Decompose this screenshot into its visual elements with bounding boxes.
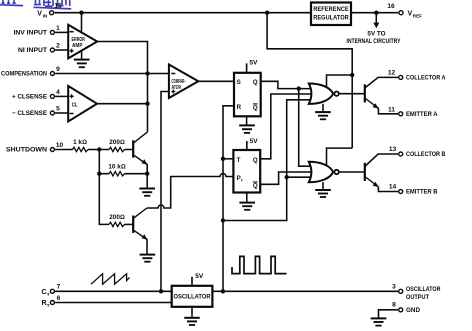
ground below flip-flop	[239, 193, 255, 210]
node FF T tap	[221, 157, 225, 161]
wire reference regulator output to VREF	[351, 12, 398, 14]
wire Q1 emitter to 10k node	[146, 164, 148, 174]
svg-text:1 kΩ: 1 kΩ	[73, 139, 87, 146]
CL amp minus	[70, 113, 74, 115]
wire INV input	[55, 31, 69, 33]
pin 3 oscillator output terminal	[399, 289, 403, 293]
svg-text:13: 13	[389, 146, 397, 153]
ground below NOR A	[315, 104, 331, 120]
watermark blue fragments	[2, 0, 70, 6]
ground below latch	[239, 116, 255, 133]
svg-text:2: 2	[56, 43, 60, 50]
pin 7 CT terminal	[50, 289, 54, 293]
node CT ramp tap	[159, 289, 163, 293]
wire Q2 collector to FF preset with hop	[147, 174, 234, 209]
svg-text:OSCILLATOR: OSCILLATOR	[174, 294, 211, 301]
wire FF T input	[223, 158, 234, 160]
pin 8 GND terminal	[399, 308, 403, 312]
svg-text:R: R	[237, 104, 242, 111]
resistor 1 kOhm	[73, 147, 89, 151]
svg-text:COMPENSATION: COMPENSATION	[1, 71, 47, 78]
svg-text:ERROR: ERROR	[72, 37, 86, 43]
svg-text:COLLECTOR A: COLLECTOR A	[406, 74, 446, 81]
svg-text:T: T	[237, 157, 241, 164]
pin 5 -CL terminal	[50, 111, 54, 115]
wire RT input	[55, 302, 172, 304]
resistor 200 Ohm upper	[109, 147, 125, 151]
svg-text:− CLSENSE: − CLSENSE	[12, 110, 47, 117]
svg-text:+ CLSENSE: + CLSENSE	[12, 94, 47, 101]
svg-text:T: T	[47, 292, 50, 297]
svg-text:EMITTER A: EMITTER A	[406, 111, 438, 118]
wire SHUTDOWN to R1	[55, 149, 72, 151]
node shutdown divider mid	[97, 172, 101, 176]
node blanking tap	[221, 218, 225, 222]
svg-text:T: T	[47, 303, 50, 308]
wire oscillator blanking to NOR inputs	[223, 100, 314, 221]
pin 16 VREF terminal	[399, 11, 403, 15]
resistor 10 kOhm	[109, 172, 125, 176]
svg-text:REGULATOR: REGULATOR	[313, 15, 349, 22]
svg-text:8: 8	[392, 301, 396, 308]
5V supply stub latch	[246, 63, 248, 73]
transistor QB output B	[365, 163, 379, 187]
svg-text:9: 9	[56, 66, 60, 73]
NOR gate B	[309, 162, 333, 182]
wire VIN bus	[54, 12, 311, 14]
wire -CLSENSE	[55, 112, 69, 114]
wire comparator output to latch S	[198, 80, 235, 82]
wire comparator plus input from CT ramp	[161, 92, 170, 292]
CL amp plus	[70, 94, 74, 98]
node blanking NOR B tap	[285, 175, 289, 179]
comparator minus	[171, 73, 175, 75]
watermark blue underline	[0, 5, 71, 9]
pin 14 emitter B terminal	[399, 190, 403, 194]
svg-text:SHUTDOWN: SHUTDOWN	[6, 147, 47, 154]
pin 9 compensation terminal	[50, 72, 54, 76]
wire Q2 emitter down	[146, 239, 148, 255]
svg-text:REF: REF	[413, 14, 422, 19]
pin 12 collector A terminal	[399, 75, 403, 79]
svg-text:10: 10	[56, 142, 64, 149]
NOR gate A	[309, 84, 333, 104]
wire COMPENSATION to comparator minus	[55, 73, 170, 75]
svg-text:ATOR: ATOR	[172, 85, 182, 91]
svg-text:Q: Q	[253, 183, 258, 190]
svg-text:11: 11	[388, 106, 395, 113]
wire latch R to oscillator rail	[223, 106, 235, 291]
wire NOR A output to QA base	[339, 93, 365, 95]
ground below oscillator	[184, 307, 200, 325]
pin 6 RT terminal	[50, 301, 54, 305]
wire +CLSENSE	[55, 95, 69, 97]
flip-flop U5 box T Pr Q	[233, 150, 260, 193]
svg-text:C: C	[42, 289, 47, 296]
svg-text:GND: GND	[406, 307, 421, 314]
node latch Q fanout	[297, 86, 301, 90]
svg-text:1: 1	[56, 25, 60, 32]
svg-text:R: R	[42, 300, 47, 307]
wire shutdown divider vertical	[99, 150, 109, 225]
resistor 200 Ohm lower	[109, 222, 125, 226]
latch U4 box S R Q	[234, 73, 261, 117]
node compensation junction	[145, 71, 149, 75]
svg-text:INTERNAL CIRCUITRY: INTERNAL CIRCUITRY	[347, 38, 402, 45]
svg-text:NI INPUT: NI INPUT	[18, 47, 47, 54]
wire FF Qbar to NOR B middle input	[260, 172, 314, 184]
svg-text:7: 7	[57, 284, 61, 291]
svg-text:Q: Q	[253, 105, 258, 112]
svg-text:OSCILLATOR: OSCILLATOR	[406, 286, 441, 293]
node VREF internal tap	[374, 11, 378, 15]
wire VIN down-rail to NOR gates	[267, 13, 352, 148]
wire collector A	[365, 77, 398, 88]
wire 10k row	[99, 173, 147, 175]
wire oscillator output to pin 3	[212, 290, 398, 292]
svg-text:200Ω: 200Ω	[109, 139, 125, 146]
node CL output junction	[145, 102, 149, 106]
wire latch Q to NOR gates	[261, 81, 314, 88]
wire CT input	[55, 290, 172, 292]
svg-text:r: r	[241, 178, 243, 183]
node gate rail tap NOR A	[350, 73, 354, 77]
wire NI input	[55, 49, 69, 51]
wire collector B	[365, 154, 398, 167]
svg-text:COLLECTOR B: COLLECTOR B	[406, 151, 446, 158]
pin 15 VIN terminal	[50, 11, 54, 15]
svg-text:15: 15	[54, 3, 62, 10]
node oscillator output tap	[221, 289, 225, 293]
wire error amp output	[97, 42, 148, 132]
svg-text:Q: Q	[253, 79, 258, 86]
wire emitter B	[378, 187, 398, 192]
svg-text:12: 12	[388, 69, 396, 76]
wire NOR A top supply branch	[327, 75, 353, 88]
pin 2 NI terminal	[50, 48, 54, 52]
transistor QA output A	[365, 84, 379, 108]
arrow 5V to internal circuitry	[373, 23, 379, 29]
pin 1 INV terminal	[50, 30, 54, 34]
sawtooth waveform icon	[91, 274, 130, 284]
svg-text:5V: 5V	[195, 273, 204, 280]
wire R4 to Q2 base	[125, 223, 134, 225]
ground at GND pin	[371, 318, 387, 325]
svg-text:V: V	[408, 11, 413, 18]
wire NOR B output to QB base	[339, 171, 365, 173]
5V supply stub flip-flop	[246, 141, 248, 150]
reference regulator box	[311, 3, 351, 26]
oscillator box	[172, 286, 213, 307]
error amp minus	[70, 31, 74, 33]
wire NOR B top supply branch	[327, 148, 353, 165]
pin 13 collector B terminal	[399, 152, 403, 156]
svg-text:5V TO: 5V TO	[367, 31, 385, 38]
svg-text:S: S	[237, 79, 241, 86]
node Q1 emitter 10k junction	[145, 172, 149, 176]
wire blanking branch to NOR B bottom input	[287, 176, 314, 178]
ground below Q1 emitter	[139, 174, 155, 196]
svg-text:REFERENCE: REFERENCE	[313, 6, 349, 13]
svg-text:6: 6	[57, 295, 61, 302]
ground below NOR B	[315, 182, 331, 197]
square waveform icon	[232, 256, 287, 273]
ground below Q2 emitter	[140, 255, 156, 262]
svg-text:EMITTER B: EMITTER B	[406, 189, 438, 196]
svg-text:3: 3	[392, 284, 396, 291]
5V supply stub oscillator	[191, 277, 193, 286]
svg-text:14: 14	[389, 184, 397, 191]
transistor Q1 shutdown	[133, 132, 147, 165]
svg-text:V: V	[37, 11, 42, 18]
wire VIN to error-amp supply	[81, 13, 83, 34]
svg-text:AMP: AMP	[72, 43, 83, 49]
op-amp CL current limit amp	[68, 86, 97, 122]
svg-text:Q: Q	[253, 157, 258, 164]
wire 5V-to-internal stub	[375, 13, 377, 24]
svg-text:5V: 5V	[249, 60, 258, 67]
transistor Q2 shutdown low	[133, 208, 147, 240]
comparator U3	[169, 65, 198, 99]
svg-text:10 kΩ: 10 kΩ	[108, 164, 125, 171]
pin 4 +CL terminal	[50, 94, 54, 98]
wire CL amp output	[96, 103, 147, 105]
ground below error amp	[74, 51, 90, 67]
comparator plus	[171, 90, 175, 94]
svg-text:5V: 5V	[250, 138, 259, 145]
svg-text:CL: CL	[72, 102, 79, 108]
svg-text:5: 5	[56, 106, 60, 113]
svg-text:INV INPUT: INV INPUT	[14, 30, 48, 37]
svg-text:200Ω: 200Ω	[109, 214, 125, 221]
svg-text:16: 16	[387, 3, 395, 10]
wire FF Q to NOR A middle input	[260, 94, 314, 159]
wire emitter A	[378, 108, 398, 114]
wire latch Q branch to NOR B top input	[299, 89, 314, 167]
wire R2 to Q1 base	[125, 149, 134, 151]
svg-text:4: 4	[56, 89, 60, 96]
node shutdown divider top	[97, 147, 101, 151]
node VIN junction to gate rail	[265, 11, 269, 15]
svg-text:IN: IN	[43, 14, 48, 19]
svg-text:OUTPUT: OUTPUT	[406, 294, 429, 301]
pin 11 emitter A terminal	[399, 112, 403, 116]
node VIN junction to error amp	[79, 11, 83, 15]
wire R1 to junction	[88, 149, 109, 151]
wire GND pin	[379, 310, 398, 318]
error amp plus	[70, 49, 74, 53]
pin 10 shutdown terminal	[50, 148, 54, 152]
op-amp ERROR AMP	[68, 25, 97, 59]
